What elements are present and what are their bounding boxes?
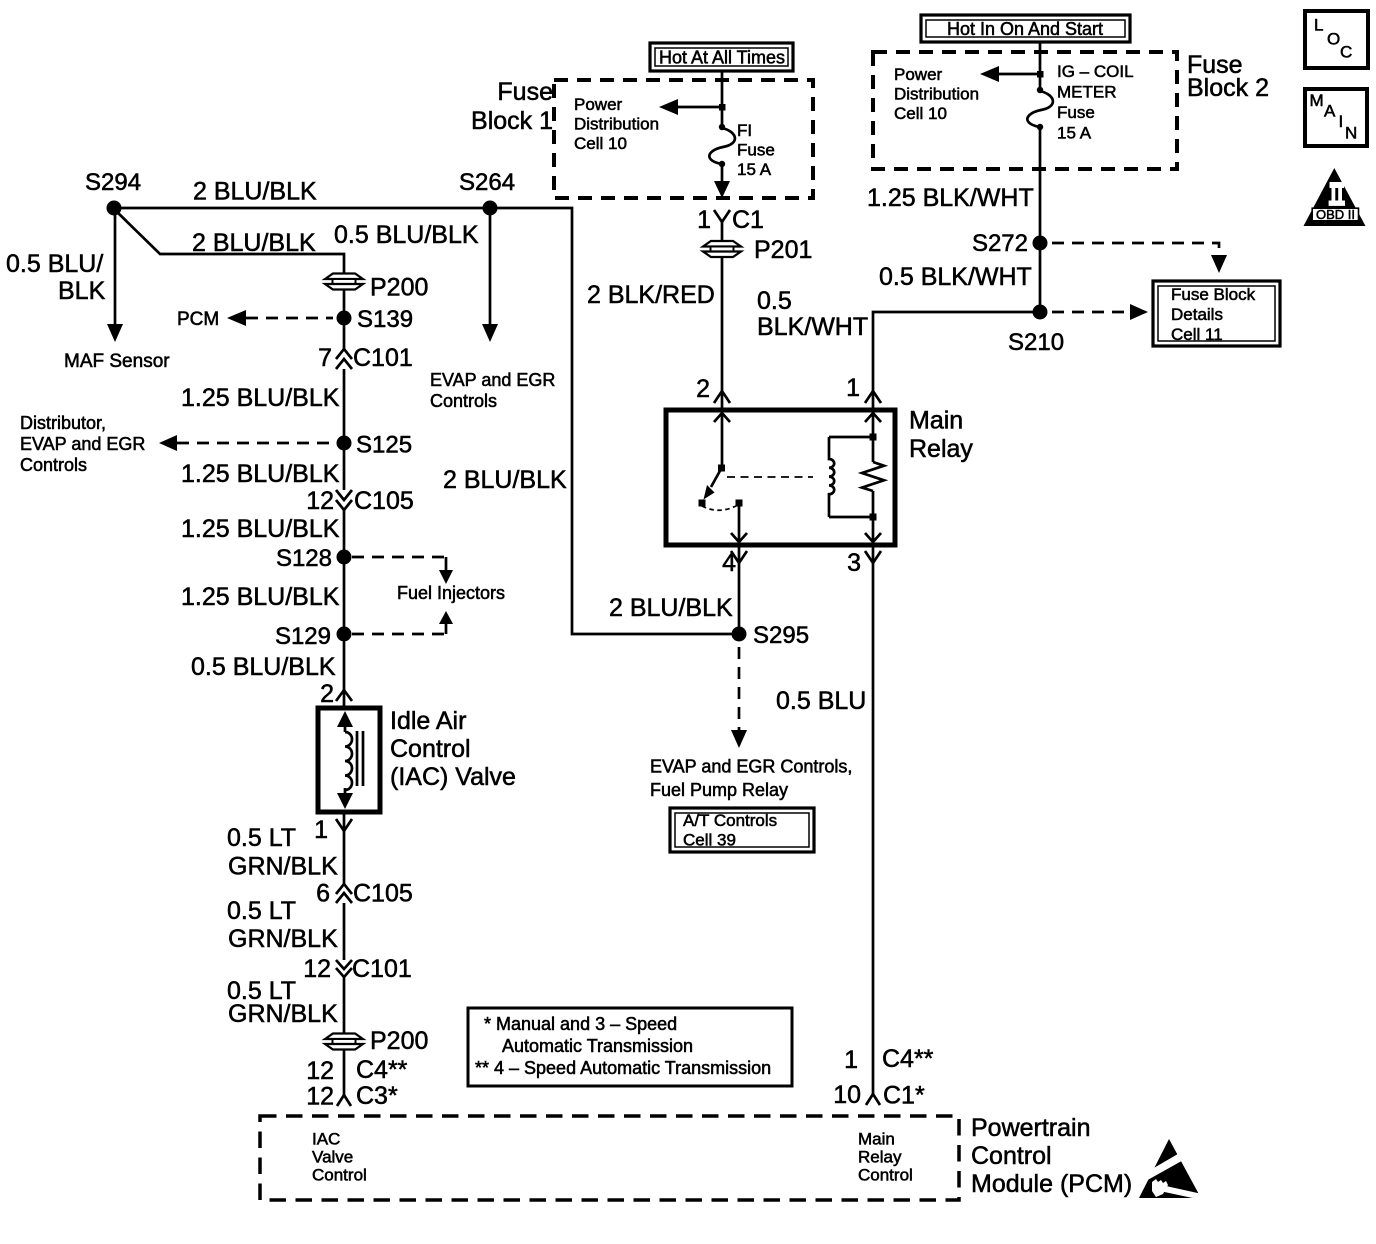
svg-text:Hot At All Times: Hot At All Times <box>659 48 785 68</box>
svg-text:1.25 BLU/BLK: 1.25 BLU/BLK <box>181 460 340 488</box>
svg-text:C1*: C1* <box>883 1082 925 1110</box>
svg-text:C105: C105 <box>353 880 413 908</box>
wire 0.5 BLK/WHT from S210 to main relay pin 1 <box>873 312 1040 410</box>
svg-text:Power: Power <box>574 95 623 114</box>
svg-text:4: 4 <box>722 549 736 577</box>
Powertrain Control Module dashed box <box>260 1116 959 1200</box>
splice S125 <box>337 436 352 451</box>
svg-text:EVAP and EGR: EVAP and EGR <box>430 370 555 390</box>
svg-text:2 BLU/BLK: 2 BLU/BLK <box>193 178 317 206</box>
svg-text:S210: S210 <box>1008 329 1064 356</box>
svg-text:Fuse: Fuse <box>1057 103 1095 122</box>
svg-text:S294: S294 <box>85 169 141 196</box>
pin 2 of main relay (chevron) <box>714 391 730 403</box>
grommet P200 (lower) <box>325 1034 363 1050</box>
svg-text:C101: C101 <box>352 955 412 983</box>
svg-text:P200: P200 <box>370 274 428 302</box>
relay Main Relay box <box>666 410 895 545</box>
svg-text:C: C <box>1340 43 1352 62</box>
svg-text:0.5 BLU/BLK: 0.5 BLU/BLK <box>191 653 336 681</box>
svg-text:0.5 BLK/WHT: 0.5 BLK/WHT <box>879 263 1032 291</box>
svg-text:GRN/BLK: GRN/BLK <box>228 1000 338 1028</box>
connector C101 pin 12 (double chevron down) <box>336 960 352 977</box>
junction to Power Distribution arrow <box>719 104 726 111</box>
ESD sensitive symbol <box>1139 1139 1202 1200</box>
svg-text:P200: P200 <box>370 1027 428 1055</box>
svg-text:O: O <box>1327 30 1340 49</box>
svg-text:M: M <box>1310 91 1324 110</box>
svg-text:Details: Details <box>1171 305 1223 324</box>
svg-text:S129: S129 <box>275 623 331 650</box>
svg-text:12: 12 <box>303 955 331 983</box>
splice S128 <box>337 550 352 565</box>
svg-text:Main: Main <box>909 407 963 435</box>
splice S129 <box>337 627 352 642</box>
dashed wire S139 to PCM <box>246 317 333 320</box>
wire 0.5 BLU relay pin 3 to PCM <box>872 545 875 1095</box>
fuse FI Fuse 15 A <box>709 124 735 167</box>
Idle Air Control (IAC) Valve body <box>318 708 380 812</box>
svg-text:A/T Controls: A/T Controls <box>683 811 777 830</box>
svg-text:L: L <box>1314 16 1323 35</box>
wire 0.5 LT GRN/BLK from IAC pin 1 to C105 <box>343 812 346 884</box>
arrow to Power Distribution <box>980 66 999 82</box>
svg-text:12: 12 <box>306 1057 334 1085</box>
svg-text:2 BLU/BLK: 2 BLU/BLK <box>192 229 316 257</box>
svg-text:1: 1 <box>844 1046 858 1074</box>
LOC symbol box <box>1305 11 1368 68</box>
splice S139 <box>337 311 352 326</box>
dashed wire 0.5 BLU from S295 to EVAP and EGR Controls <box>738 647 741 731</box>
IAC valve coil winding <box>337 711 353 809</box>
dashed wire S210 to Fuse Block Details <box>1052 311 1130 314</box>
connector C1 chevron <box>866 1094 880 1105</box>
pin 4 of main relay (chevron) <box>731 551 747 563</box>
wire 2 BLU/BLK from S294 to S264 to corner <box>113 208 739 634</box>
Fuse Block 2 dashed box <box>873 52 1177 169</box>
svg-text:IG – COIL: IG – COIL <box>1057 62 1134 81</box>
svg-text:Fuse: Fuse <box>737 141 775 160</box>
svg-text:Block 2: Block 2 <box>1187 74 1269 102</box>
svg-text:S125: S125 <box>356 432 412 459</box>
svg-text:Distributor,: Distributor, <box>20 413 106 433</box>
svg-text:0.5 LT: 0.5 LT <box>227 824 296 852</box>
svg-text:15 A: 15 A <box>737 160 772 179</box>
svg-text:Control: Control <box>858 1166 913 1185</box>
Hot At All Times box <box>650 43 793 71</box>
wire 0.5 BLU/BLK from S264 down to EVAP and EGR Controls <box>489 208 492 325</box>
svg-text:0.5 LT: 0.5 LT <box>227 897 296 925</box>
wire 0.5 LT GRN/BLK from C105 to C101 <box>343 903 346 960</box>
IAC valve core <box>356 731 359 786</box>
svg-text:Relay: Relay <box>909 435 973 463</box>
wire fuse to C1 arrow <box>721 164 724 182</box>
svg-text:PCM: PCM <box>177 309 219 330</box>
svg-text:0.5 BLU/: 0.5 BLU/ <box>6 250 103 278</box>
svg-text:Distribution: Distribution <box>574 115 659 134</box>
wire from Hot At All Times into fuse <box>721 71 724 127</box>
svg-text:Block 1: Block 1 <box>471 107 553 135</box>
svg-text:Control: Control <box>312 1166 367 1185</box>
connector C105 pin 6 (double chevron up) <box>336 884 352 903</box>
splice S295 <box>732 627 747 642</box>
svg-text:7: 7 <box>318 344 332 372</box>
svg-text:C4**: C4** <box>356 1056 408 1084</box>
footnote box <box>468 1008 792 1086</box>
relay coil <box>829 437 873 517</box>
dashed wire S128 to Fuel Injectors <box>352 556 446 559</box>
dashed wire S272 to Fuse Block Details <box>1052 243 1219 256</box>
Fuse Block 1 dashed box <box>554 80 813 198</box>
svg-text:GRN/BLK: GRN/BLK <box>228 925 338 953</box>
svg-text:S264: S264 <box>459 169 515 196</box>
svg-text:C3*: C3* <box>356 1082 398 1110</box>
junction to Power Distribution arrow <box>1037 71 1044 78</box>
arrow to PCM <box>227 310 246 326</box>
svg-text:Fuse Block: Fuse Block <box>1171 285 1256 304</box>
svg-text:Fuel Pump Relay: Fuel Pump Relay <box>650 780 788 800</box>
svg-text:Powertrain: Powertrain <box>971 1114 1091 1142</box>
svg-text:Idle Air: Idle Air <box>390 707 466 735</box>
svg-text:MAF Sensor: MAF Sensor <box>64 351 170 372</box>
arrow down to EVAP and EGR Controls <box>731 730 747 748</box>
OBD II symbol <box>1304 168 1366 226</box>
wire 0.5 LT GRN/BLK from C101 to P200 <box>343 977 346 1033</box>
wire 2 BLK/RED from P201 to main relay pin 2 <box>721 257 724 410</box>
svg-text:FI: FI <box>737 121 752 140</box>
Hot In On And Start box <box>921 15 1130 42</box>
splice S294 <box>107 201 122 216</box>
svg-text:** 4 – Speed Automatic Transmi: ** 4 – Speed Automatic Transmission <box>475 1058 771 1078</box>
wire from P200 to PCM <box>343 1050 346 1096</box>
svg-text:Controls: Controls <box>430 391 497 411</box>
arrow to Distributor <box>159 435 177 451</box>
svg-text:I: I <box>1339 112 1344 131</box>
wire C105 to S128 to S129 to IAC valve <box>343 510 346 708</box>
svg-text:3: 3 <box>847 549 861 577</box>
svg-text:Relay: Relay <box>858 1148 902 1167</box>
svg-text:P201: P201 <box>754 236 812 264</box>
svg-text:Main: Main <box>858 1130 895 1149</box>
svg-text:12: 12 <box>306 487 334 515</box>
svg-text:2 BLU/BLK: 2 BLU/BLK <box>609 594 733 622</box>
svg-text:Control: Control <box>390 735 471 763</box>
svg-text:Cell 10: Cell 10 <box>574 134 627 153</box>
svg-text:0.5 BLU/BLK: 0.5 BLU/BLK <box>334 221 479 249</box>
connector C1 pin 1 (chevron) <box>714 210 730 222</box>
connector C105 pin 12 (double chevron down) <box>336 490 352 510</box>
svg-text:METER: METER <box>1057 83 1117 102</box>
svg-text:BLK/WHT: BLK/WHT <box>757 313 868 341</box>
A/T Controls Cell 39 box <box>670 808 814 852</box>
svg-text:C101: C101 <box>353 344 413 372</box>
svg-text:Controls: Controls <box>20 455 87 475</box>
arrow at Fuse Block 1 exit <box>714 181 730 198</box>
arrow right to Fuse Block Details <box>1130 304 1148 320</box>
svg-text:Hot In On And Start: Hot In On And Start <box>947 19 1103 39</box>
connector C3 chevron <box>337 1095 351 1106</box>
svg-text:A: A <box>1324 102 1336 121</box>
svg-text:6: 6 <box>316 880 330 908</box>
wire 1.25 BLK/WHT from fuse to S272 <box>1039 127 1042 312</box>
svg-text:* Manual and 3 – Speed: * Manual and 3 – Speed <box>484 1014 677 1034</box>
svg-text:EVAP and EGR Controls,: EVAP and EGR Controls, <box>650 757 852 777</box>
svg-text:2: 2 <box>696 375 710 403</box>
svg-text:2 BLK/RED: 2 BLK/RED <box>587 281 715 309</box>
svg-text:OBD II: OBD II <box>1316 207 1355 222</box>
wire from Hot In On And Start into fuse <box>1039 42 1042 90</box>
pin 3 of main relay (chevron) <box>865 551 881 563</box>
svg-text:2: 2 <box>320 680 334 708</box>
pin 2 of IAC valve (chevron) <box>336 690 352 701</box>
relay actuating dashed link <box>727 476 813 478</box>
relay switch contact arm <box>699 413 748 542</box>
svg-text:Cell 39: Cell 39 <box>683 831 736 850</box>
svg-text:1.25 BLU/BLK: 1.25 BLU/BLK <box>181 583 340 611</box>
arrow down to Fuse Block Details <box>1211 255 1227 273</box>
wire 0.5 BLU/BLK down from S294 to MAF Sensor <box>114 208 117 325</box>
svg-text:N: N <box>1345 124 1357 143</box>
Fuse Block Details Cell 11 box <box>1153 281 1280 346</box>
svg-text:S272: S272 <box>972 230 1028 257</box>
svg-text:Control: Control <box>971 1142 1052 1170</box>
svg-text:S128: S128 <box>276 545 332 572</box>
svg-text:Cell 11: Cell 11 <box>1171 325 1223 344</box>
svg-text:12: 12 <box>306 1083 334 1111</box>
dashed wire S129 to Fuel Injectors <box>352 633 446 636</box>
arrow to MAF Sensor <box>107 324 123 342</box>
svg-text:10: 10 <box>833 1081 861 1109</box>
svg-text:1.25 BLK/WHT: 1.25 BLK/WHT <box>867 184 1034 212</box>
svg-text:(IAC) Valve: (IAC) Valve <box>390 763 516 791</box>
svg-text:0.5 BLU: 0.5 BLU <box>776 687 866 715</box>
svg-text:Automatic Transmission: Automatic Transmission <box>502 1036 693 1056</box>
svg-text:GRN/BLK: GRN/BLK <box>228 853 338 881</box>
splice S210 <box>1033 305 1048 320</box>
svg-text:BLK: BLK <box>58 277 106 305</box>
splice S264 <box>483 201 498 216</box>
pin 1 of main relay (chevron) <box>865 391 881 403</box>
fuse IG-COIL METER Fuse 15 A <box>1027 87 1053 130</box>
svg-text:Distribution: Distribution <box>894 85 979 104</box>
arrow down to Fuel Injectors <box>439 570 453 584</box>
wire 1.25 BLU/BLK C101 to S125 to C105 <box>343 369 346 490</box>
svg-text:1: 1 <box>314 816 328 844</box>
svg-text:1: 1 <box>846 374 860 402</box>
svg-text:Valve: Valve <box>312 1148 353 1167</box>
connector C101 pin 7 (double chevron up) <box>336 349 352 369</box>
svg-text:1.25 BLU/BLK: 1.25 BLU/BLK <box>181 384 340 412</box>
arrow up to Fuel Injectors <box>439 611 453 624</box>
svg-text:S295: S295 <box>753 622 809 649</box>
wire 2 BLU/BLK relay pin 4 to S295 <box>738 545 741 634</box>
arrow to Power Distribution <box>659 99 678 115</box>
svg-text:Cell 10: Cell 10 <box>894 104 947 123</box>
wire 2 BLU/BLK diagonal from S294 to P200 <box>114 209 344 273</box>
svg-text:Power: Power <box>894 65 943 84</box>
wire from P200 to S139 to C101 <box>343 290 346 349</box>
grommet P200 (upper) <box>325 274 363 290</box>
svg-text:Fuel Injectors: Fuel Injectors <box>397 583 505 603</box>
splice S272 <box>1033 236 1048 251</box>
svg-text:15 A: 15 A <box>1057 124 1092 143</box>
grommet P201 <box>703 241 741 257</box>
svg-text:1: 1 <box>697 206 711 234</box>
dashed wire S125 to Distributor EVAP and EGR Controls <box>177 442 333 445</box>
MAIN symbol box <box>1305 89 1367 146</box>
relay resistor <box>862 413 884 542</box>
pin 1 of IAC valve (chevron) <box>336 819 352 831</box>
svg-text:2 BLU/BLK: 2 BLU/BLK <box>443 466 567 494</box>
svg-text:EVAP and EGR: EVAP and EGR <box>20 434 145 454</box>
svg-text:C105: C105 <box>354 487 414 515</box>
svg-text:0.5: 0.5 <box>757 287 792 315</box>
svg-text:Module (PCM): Module (PCM) <box>971 1170 1132 1198</box>
arrow to EVAP and EGR Controls <box>482 324 498 342</box>
svg-text:Fuse: Fuse <box>497 78 553 106</box>
svg-text:S139: S139 <box>357 306 413 333</box>
svg-text:IAC: IAC <box>312 1130 340 1149</box>
svg-text:C1: C1 <box>732 206 764 234</box>
svg-text:1.25 BLU/BLK: 1.25 BLU/BLK <box>181 515 340 543</box>
svg-text:C4**: C4** <box>882 1045 934 1073</box>
